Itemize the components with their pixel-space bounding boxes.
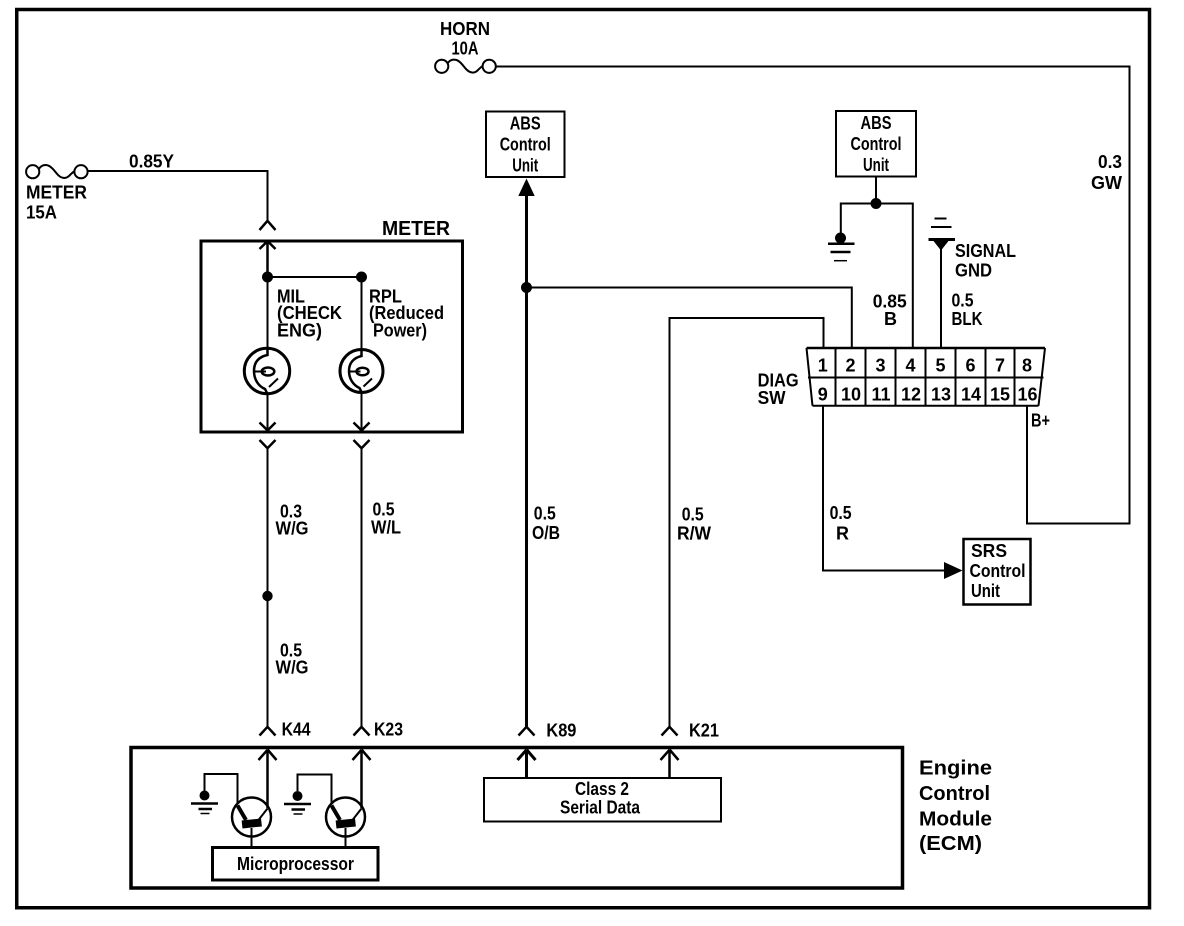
wire Q1 emitter to ground	[205, 774, 238, 804]
svg-text:GND: GND	[955, 261, 992, 281]
connector arrow K21 inside ECM	[661, 750, 679, 779]
wire MIL drop	[267, 277, 269, 349]
connector fork into METER top	[260, 221, 276, 230]
connector fork below METER bottom right	[354, 440, 370, 448]
connector fork K21	[662, 727, 678, 736]
svg-text:(ECM): (ECM)	[919, 833, 982, 855]
svg-text:0.5: 0.5	[830, 503, 852, 523]
pin numbers 1-8	[818, 356, 1032, 376]
box SRS Control Unit	[964, 539, 1031, 605]
connector arrow K23 inside ECM	[353, 750, 371, 809]
svg-text:2: 2	[845, 356, 855, 376]
svg-text:Control: Control	[970, 561, 1026, 581]
svg-text:Unit: Unit	[512, 156, 538, 176]
svg-text:ABS: ABS	[861, 113, 892, 133]
wire Q2 emitter to ground	[298, 775, 332, 805]
transistor Q1	[232, 798, 271, 837]
arrowhead into ABS (left)	[518, 179, 534, 197]
svg-text:BLK: BLK	[952, 309, 983, 329]
svg-text:10A: 10A	[452, 39, 479, 59]
label 0.85 B	[873, 292, 907, 330]
lamp MIL	[244, 348, 289, 393]
wire MIL to K44 (0.3 W/G, 0.5 W/G)	[267, 448, 269, 726]
label 0.5 O/B	[532, 504, 560, 544]
svg-text:GW: GW	[1091, 173, 1122, 193]
wire MIL to box bottom	[267, 393, 269, 431]
svg-text:5: 5	[935, 356, 945, 376]
svg-text:0.5: 0.5	[373, 500, 395, 520]
svg-text:W/L: W/L	[371, 518, 401, 538]
label HORN 10A	[440, 19, 490, 59]
svg-text:W/G: W/G	[276, 519, 309, 539]
wire Q1 base to microprocessor	[251, 828, 253, 847]
connector fork K89	[519, 727, 535, 736]
wire meter fuse to METER box	[88, 171, 268, 221]
connector arrow K44 inside ECM	[259, 750, 277, 809]
box ABS Control Unit (left)	[486, 112, 565, 178]
label SRS Control Unit	[970, 541, 1026, 601]
pin numbers 9-16	[818, 385, 1038, 405]
box Engine Control Module ECM	[131, 748, 903, 889]
connector arrow inside METER bottom right	[354, 423, 370, 431]
svg-text:METER: METER	[26, 183, 87, 203]
svg-text:9: 9	[818, 385, 828, 405]
svg-text:K23: K23	[374, 720, 403, 740]
svg-text:SIGNAL: SIGNAL	[955, 241, 1016, 261]
svg-text:Power): Power)	[373, 321, 427, 341]
connector arrow inside METER top	[260, 241, 276, 277]
label ABS Control Unit (left)	[500, 114, 551, 176]
wire O/B junction to DIAG pin 2	[527, 288, 852, 348]
svg-text:R: R	[836, 524, 849, 544]
svg-text:0.3: 0.3	[1098, 152, 1122, 172]
svg-text:SRS: SRS	[971, 541, 1007, 561]
svg-text:15A: 15A	[26, 203, 57, 223]
node junction O/B	[521, 282, 532, 293]
connector arrow inside METER bottom left	[260, 423, 276, 431]
label 0.5 R/W	[677, 505, 711, 544]
svg-text:SW: SW	[758, 388, 786, 408]
box METER	[201, 241, 463, 432]
label 0.5 BLK	[952, 291, 983, 330]
fuse HORN 10A	[435, 60, 496, 73]
node junction ABS right	[871, 198, 882, 209]
svg-text:6: 6	[965, 356, 975, 376]
label Engine Control Module (ECM)	[919, 758, 992, 856]
svg-text:14: 14	[961, 385, 981, 405]
label 0.3 GW	[1091, 152, 1122, 193]
svg-text:Class 2: Class 2	[575, 779, 629, 799]
label 0.5 W/L	[371, 500, 401, 538]
wire RPL to K23 (0.5 W/L)	[361, 448, 363, 726]
svg-text:0.5: 0.5	[534, 504, 556, 524]
label DIAG SW	[758, 371, 799, 409]
wire 0.5 R/W K21 to DIAG pin 1	[670, 318, 824, 727]
svg-text:B: B	[884, 309, 897, 329]
connector fork K23	[354, 727, 370, 736]
svg-text:K89: K89	[546, 721, 576, 741]
svg-text:Serial Data: Serial Data	[560, 798, 641, 818]
svg-text:13: 13	[931, 385, 951, 405]
svg-text:B+: B+	[1031, 411, 1050, 431]
connector fork below METER bottom left	[260, 440, 276, 448]
wire RPL drop	[361, 277, 363, 350]
box ABS Control Unit (right)	[836, 111, 916, 177]
label RPL (Reduced Power)	[369, 287, 444, 341]
connector DIAG SW body	[807, 348, 1046, 406]
arrowhead into SRS	[944, 562, 963, 579]
svg-text:K21: K21	[689, 721, 719, 741]
svg-text:ENG): ENG)	[277, 321, 322, 341]
svg-text:Unit: Unit	[863, 155, 889, 175]
wire Q2 base to microprocessor	[345, 828, 347, 847]
label ABS Control Unit (right)	[851, 113, 902, 175]
svg-text:ABS: ABS	[510, 114, 541, 134]
label METER 15A	[26, 183, 87, 223]
svg-text:0.85Y: 0.85Y	[129, 152, 174, 172]
wire horn fuse to B+ (0.3 GW)	[496, 67, 1130, 524]
svg-text:Unit: Unit	[971, 581, 1000, 601]
svg-text:HORN: HORN	[440, 19, 490, 39]
svg-text:Control: Control	[851, 134, 902, 154]
fuse METER 15A	[26, 165, 88, 178]
label 0.5 W/G	[276, 641, 309, 678]
svg-text:3: 3	[875, 356, 885, 376]
ground ABS right	[828, 233, 855, 261]
node splice 0.3/0.5 W/G	[262, 591, 272, 601]
connector fork K44	[260, 727, 276, 736]
svg-text:16: 16	[1017, 385, 1037, 405]
svg-text:W/G: W/G	[276, 658, 309, 678]
svg-text:1: 1	[818, 356, 828, 376]
svg-text:Control: Control	[919, 783, 990, 805]
svg-text:10: 10	[841, 385, 861, 405]
label 0.5 R	[830, 503, 852, 544]
svg-text:0.5: 0.5	[682, 505, 704, 525]
wire RPL to box bottom	[361, 392, 363, 431]
box Class 2 Serial Data	[484, 778, 721, 822]
svg-text:4: 4	[905, 356, 915, 376]
svg-text:O/B: O/B	[532, 523, 560, 543]
wire DIAG pin 9 to SRS (0.5 R)	[823, 406, 945, 571]
svg-text:8: 8	[1022, 356, 1032, 376]
node junction RPL	[356, 272, 367, 283]
svg-text:0.5: 0.5	[952, 291, 974, 311]
svg-text:12: 12	[901, 385, 921, 405]
box Microprocessor	[213, 848, 379, 881]
ground Q1	[191, 791, 218, 814]
svg-text:7: 7	[995, 356, 1005, 376]
ground Q2	[284, 791, 311, 814]
label MIL (CHECK ENG)	[277, 287, 342, 341]
svg-text:11: 11	[871, 385, 890, 405]
svg-text:K44: K44	[282, 720, 311, 740]
label SIGNAL GND	[955, 241, 1016, 281]
svg-text:Engine: Engine	[919, 758, 992, 780]
svg-text:Module: Module	[919, 809, 992, 831]
wire 0.5 O/B K89 to ABS	[525, 194, 528, 726]
svg-text:Control: Control	[500, 135, 551, 155]
wire ABS (right) to junction	[875, 177, 877, 204]
node junction MIL	[262, 272, 273, 283]
wire junction branch	[841, 204, 913, 348]
connector arrow K89 inside ECM	[518, 750, 536, 779]
svg-text:R/W: R/W	[677, 524, 711, 544]
label 0.3 W/G	[276, 502, 309, 539]
wire lamp feed bus	[268, 276, 362, 278]
label Class 2 Serial Data	[560, 779, 641, 818]
svg-text:Microprocessor: Microprocessor	[237, 854, 354, 874]
ground SIGNAL GND	[929, 219, 956, 348]
svg-text:15: 15	[990, 385, 1010, 405]
lamp RPL	[340, 350, 383, 393]
svg-text:METER: METER	[382, 218, 451, 240]
transistor Q2	[326, 798, 365, 837]
